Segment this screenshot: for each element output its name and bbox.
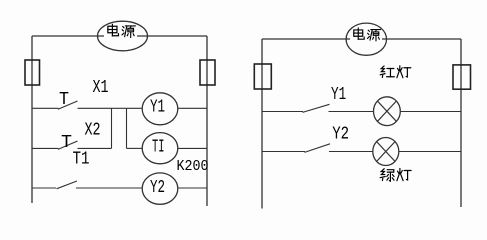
power source oval U1 (left): [98, 21, 148, 51]
junction vertical wire A (parallel branch X2): [111, 108, 113, 148]
rung 2 wire: left rail to contact T: [32, 147, 59, 149]
timer coil TI circle: [142, 133, 178, 164]
power source text 电源 (right): [354, 28, 364, 39]
power source label background (right): [350, 27, 382, 43]
right ladder frame: right power rail: [460, 39, 462, 207]
svg-text:T: T: [61, 133, 72, 153]
lamp HL1 cross stroke 1: [378, 101, 397, 121]
rung 2 wire: contact to junction A: [78, 147, 112, 149]
rung 3 wire: left rail to contact T1: [32, 187, 56, 189]
left ladder frame: left power rail: [31, 36, 33, 203]
fuse FU1 (left rail): [25, 60, 40, 85]
right ladder frame: top bus wire: [262, 38, 461, 40]
lamp HL1 cross stroke 2: [378, 101, 397, 121]
svg-text:Y1: Y1: [331, 85, 346, 105]
rung 2 wire: contact to lamp HL2: [329, 151, 373, 153]
wire: timer TI to right rail: [178, 147, 207, 149]
lamp HL2 cross stroke 2: [377, 142, 395, 162]
label 绿灯 (green lamp): [380, 169, 394, 181]
fuse FU4 (right rail): [453, 65, 471, 89]
left ladder frame: top bus wire: [32, 35, 207, 37]
lamp HL2 (green) circle: [373, 138, 399, 166]
rung 2 wire: left rail to contact Y2: [262, 151, 305, 153]
rung 1 wire: left rail to contact T: [32, 107, 59, 109]
contact Y2 blade: [305, 144, 331, 153]
power source label background: [104, 24, 137, 40]
svg-text:Y2: Y2: [332, 124, 349, 144]
svg-text:K200: K200: [177, 158, 209, 175]
contact T1 (rung 3) blade: [57, 181, 78, 189]
junction vertical wire B (branch to TI): [126, 108, 128, 148]
lamp HL1 (red) circle: [374, 97, 401, 126]
contact T (rung 2) blade: [58, 141, 78, 149]
svg-text:X2: X2: [85, 121, 101, 141]
contact T (rung 1) blade: [58, 101, 78, 109]
rung 1 wire: lamp HL1 to right rail: [400, 111, 461, 113]
rung 3 wire: contact to coil Y2: [76, 187, 142, 189]
power source oval U2 (right): [346, 23, 386, 55]
fuse FU3 (left rail): [254, 64, 271, 89]
rung 1 wire: left rail to contact Y1: [262, 111, 303, 113]
svg-text:X1: X1: [93, 78, 109, 98]
wire: junction B to timer TI: [127, 147, 143, 149]
svg-text:Y2: Y2: [150, 178, 165, 198]
lamp HL2 cross stroke 1: [377, 142, 395, 162]
rung 1 wire: coil Y1 to right rail: [178, 107, 207, 109]
svg-text:T1: T1: [73, 150, 90, 170]
rung 3 wire: coil Y2 to right rail: [178, 187, 207, 189]
label 红灯 (red lamp): [380, 66, 394, 78]
rung 1 wire: contact to coil Y1: [78, 107, 143, 109]
coil Y2 circle: [142, 173, 178, 204]
rung 1 wire: contact to lamp HL1: [329, 111, 374, 113]
svg-text:Y1: Y1: [150, 98, 165, 118]
svg-text:T: T: [59, 90, 69, 110]
rung 2 wire: lamp HL2 to right rail: [399, 151, 461, 153]
fuse FU2 (right rail): [200, 60, 215, 85]
left ladder frame: right power rail: [206, 36, 208, 206]
contact Y1 blade: [303, 104, 330, 112]
power source text 电源 (left): [108, 24, 119, 35]
svg-text:TI: TI: [152, 138, 165, 158]
right ladder frame: left power rail: [261, 39, 263, 209]
coil Y1 circle: [142, 93, 178, 125]
